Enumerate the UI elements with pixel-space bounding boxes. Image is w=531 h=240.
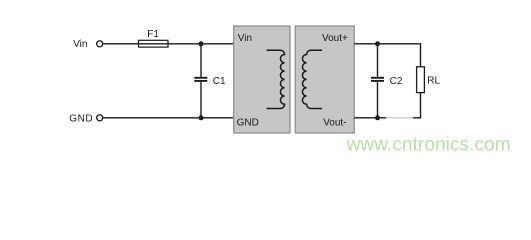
junction top of C1: [199, 41, 204, 46]
watermark fade patch over Vout- wire: [386, 112, 413, 123]
junction bottom of C2: [375, 115, 380, 120]
svg-text:GND: GND: [237, 117, 259, 128]
terminal GND: [97, 115, 103, 121]
svg-text:C1: C1: [213, 76, 226, 87]
svg-text:Vout+: Vout+: [322, 33, 348, 44]
capacitor C1: [194, 44, 207, 118]
resistor RL: [417, 67, 425, 93]
wire Vout- rail (RL to module): [354, 93, 420, 118]
junction bottom of C1: [199, 115, 204, 120]
svg-text:RL: RL: [427, 76, 440, 87]
junction top of C2: [375, 41, 380, 46]
DC-DC module secondary block: [295, 26, 354, 133]
transformer secondary winding: [302, 50, 322, 108]
wire Vin rail (terminal to module): [103, 43, 233, 45]
wire Vout+ rail (module to RL): [354, 44, 420, 67]
terminal Vin: [97, 41, 103, 47]
svg-text:Vin: Vin: [238, 33, 252, 44]
svg-text:Vout-: Vout-: [323, 117, 346, 128]
capacitor C2: [371, 44, 384, 118]
svg-text:F1: F1: [147, 29, 159, 40]
wire GND rail (terminal to module): [103, 117, 233, 119]
svg-text:C2: C2: [390, 76, 403, 87]
transformer primary winding: [267, 50, 285, 108]
svg-text:Vin: Vin: [73, 39, 87, 50]
fuse F1: [139, 40, 169, 47]
DC-DC module primary block: [234, 26, 290, 133]
svg-text:GND: GND: [69, 114, 93, 125]
svg-text:www.cntronics.com: www.cntronics.com: [346, 135, 511, 156]
